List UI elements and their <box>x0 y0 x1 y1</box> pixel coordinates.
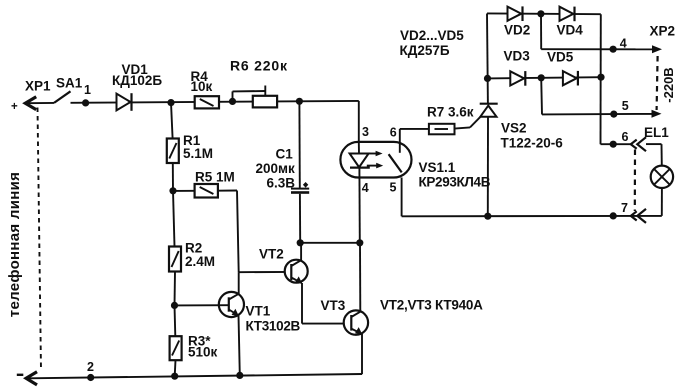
svg-text:+: + <box>11 101 18 113</box>
svg-text:6: 6 <box>622 130 629 144</box>
svg-text:КД102Б: КД102Б <box>112 73 162 88</box>
svg-text:VT1: VT1 <box>246 304 271 319</box>
svg-text:-220В: -220В <box>661 67 676 102</box>
svg-text:VD5: VD5 <box>547 49 574 64</box>
svg-text:5: 5 <box>390 180 397 194</box>
svg-text:5.1M: 5.1M <box>183 146 213 161</box>
svg-text:VT2: VT2 <box>259 247 284 262</box>
svg-text:R7 3.6к: R7 3.6к <box>427 104 474 119</box>
svg-text:EL1: EL1 <box>644 125 669 140</box>
svg-text:200мк: 200мк <box>256 161 296 176</box>
svg-text:XP2: XP2 <box>650 24 676 39</box>
svg-text:R6 220к: R6 220к <box>230 58 288 74</box>
svg-text:6: 6 <box>390 125 397 139</box>
svg-text:VT2,VT3 КТ940А: VT2,VT3 КТ940А <box>380 298 483 313</box>
svg-text:VD2...VD5: VD2...VD5 <box>400 28 464 43</box>
svg-text:SA1: SA1 <box>56 76 83 91</box>
svg-text:XP1: XP1 <box>25 79 51 94</box>
svg-text:VD4: VD4 <box>557 22 584 37</box>
svg-text:5: 5 <box>622 99 629 113</box>
svg-text:2.4M: 2.4M <box>185 254 215 269</box>
svg-text:R5 1M: R5 1M <box>195 170 235 185</box>
svg-text:4: 4 <box>362 181 369 195</box>
svg-text:7: 7 <box>621 201 628 215</box>
svg-text:4: 4 <box>620 36 627 50</box>
svg-text:VS2: VS2 <box>501 121 527 136</box>
svg-text:КД257Б: КД257Б <box>400 43 450 58</box>
svg-text:VD3: VD3 <box>504 48 531 63</box>
svg-text:VD2: VD2 <box>504 22 530 37</box>
svg-text:C1: C1 <box>276 147 294 162</box>
svg-text:1: 1 <box>84 83 91 97</box>
svg-text:510к: 510к <box>188 345 218 360</box>
svg-text:3: 3 <box>362 125 369 139</box>
svg-text:Т122-20-6: Т122-20-6 <box>501 135 564 150</box>
svg-text:2: 2 <box>87 360 94 374</box>
svg-text:КР293КЛ4В: КР293КЛ4В <box>419 175 491 190</box>
svg-text:телефонная линия: телефонная линия <box>6 172 23 317</box>
svg-text:10к: 10к <box>191 79 213 94</box>
svg-text:КТ3102В: КТ3102В <box>246 319 301 334</box>
svg-text:VT3: VT3 <box>321 298 346 313</box>
svg-text:6.3В: 6.3В <box>267 175 296 190</box>
svg-text:VS1.1: VS1.1 <box>419 160 456 175</box>
